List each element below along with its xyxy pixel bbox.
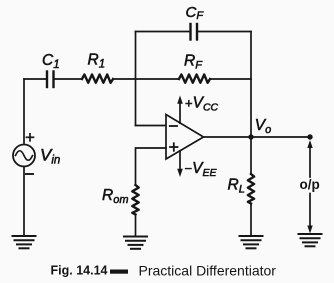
ground (Rom) bbox=[124, 237, 147, 249]
capacitor C1 bbox=[47, 72, 54, 88]
source Vin (sine voltage source) bbox=[13, 145, 35, 167]
node Vo junction dot bbox=[248, 134, 253, 139]
supply -VEE arrow bbox=[177, 151, 183, 177]
wire: RF to right vertical bbox=[210, 78, 251, 80]
resistor R1 bbox=[82, 75, 113, 83]
Vin plus polarity bbox=[27, 134, 34, 141]
op-amp U1 bbox=[166, 115, 204, 160]
wire: Vin to ground bbox=[23, 167, 25, 237]
wire: inverting input lead bbox=[136, 125, 167, 127]
o/p measurement arrow upper (arrowhead up) bbox=[307, 140, 312, 177]
Vin sine waveform bbox=[16, 151, 33, 161]
resistor Rom bbox=[132, 185, 138, 215]
wire: non-inverting input lead to Rom bbox=[136, 148, 167, 185]
o/p measurement arrow lower (arrowhead down) bbox=[307, 194, 312, 234]
wire: output from op-amp to o/p terminal bbox=[204, 136, 311, 138]
wire: top-left horizontal to C1 bbox=[24, 78, 46, 80]
wire: Rom to ground bbox=[135, 215, 137, 237]
wire: RL to ground bbox=[250, 204, 252, 237]
resistor RL bbox=[248, 174, 254, 204]
svg-text:o/p: o/p bbox=[300, 177, 320, 192]
ground (o/p terminal) bbox=[299, 234, 322, 246]
wire: summing junction to RF bbox=[136, 78, 180, 80]
wire: CF loop left vertical bbox=[135, 32, 137, 126]
Vin minus polarity bbox=[26, 173, 33, 175]
caption divider bar bbox=[110, 270, 128, 274]
wire: CF top horizontal left bbox=[136, 31, 190, 33]
svg-text:Practical Differentiator: Practical Differentiator bbox=[139, 262, 277, 278]
wire: R1 to summing junction bbox=[113, 78, 136, 80]
svg-text:Fig. 14.14: Fig. 14.14 bbox=[51, 264, 108, 278]
ground (RL) bbox=[240, 236, 263, 248]
ground (Vin) bbox=[13, 236, 36, 248]
wire: feedback right vertical down to output node bbox=[250, 32, 252, 138]
wire: left vertical from input corner down to Vin source bbox=[23, 79, 25, 145]
wire: output node down to RL bbox=[250, 137, 252, 174]
wire: CF top horizontal right bbox=[198, 31, 251, 33]
op-amp minus sign bbox=[170, 125, 177, 127]
resistor RF bbox=[179, 75, 210, 83]
op-amp plus sign bbox=[170, 143, 178, 151]
wire: C1 to R1 bbox=[55, 78, 83, 80]
capacitor CF bbox=[191, 24, 198, 40]
supply +VCC arrow bbox=[177, 96, 183, 124]
node: output terminal dot bbox=[307, 134, 312, 139]
